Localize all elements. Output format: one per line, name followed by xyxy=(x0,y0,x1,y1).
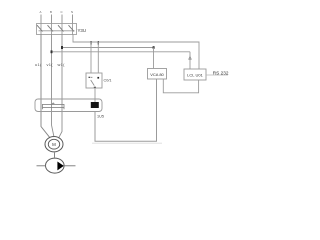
wire supply stub 1 xyxy=(40,15,42,24)
motor M xyxy=(45,137,63,152)
shadow under loop wire xyxy=(92,142,162,144)
wire bus B xyxy=(62,47,154,49)
junction dot B end xyxy=(153,46,155,49)
wire bus C xyxy=(52,51,191,53)
circuit breaker Y3U xyxy=(37,24,77,35)
wire phase 1 down xyxy=(41,35,50,138)
wire supply stub 4 xyxy=(72,15,74,24)
power module C01 xyxy=(86,73,102,88)
wire phase 2 down xyxy=(52,35,55,138)
svg-text:u1(: u1( xyxy=(35,62,42,67)
interface box LCL U01 xyxy=(184,69,206,80)
junction tick A2 xyxy=(98,41,99,44)
wire supply stub 3 xyxy=(61,15,63,24)
junction dot B start xyxy=(61,46,63,49)
controller box VCA 80 xyxy=(148,69,167,80)
junction dot C start xyxy=(51,50,53,53)
wire bus A (neutral) xyxy=(73,35,199,70)
svg-text:M: M xyxy=(52,142,56,147)
overload block frame xyxy=(35,99,102,112)
wire supply stub 2 xyxy=(51,15,53,24)
svg-text:C: C xyxy=(60,10,62,14)
RS 232 leader line xyxy=(206,74,228,76)
svg-text:N: N xyxy=(71,10,73,14)
wire phase 3 down xyxy=(59,35,63,139)
svg-text:Y3U: Y3U xyxy=(78,28,87,33)
arrow on wire to U2 xyxy=(189,56,192,59)
svg-text:B: B xyxy=(50,10,52,14)
pump xyxy=(37,158,76,173)
U-link wire between box bottoms xyxy=(163,79,198,93)
element E05 black square xyxy=(91,102,99,108)
heater element symbol xyxy=(43,103,65,109)
svg-text:1U5: 1U5 xyxy=(97,115,104,119)
wire drop to box U2 xyxy=(189,52,191,69)
wire drop to C01 pin 2 xyxy=(97,42,99,73)
svg-text:w1(: w1( xyxy=(58,62,66,67)
wire motor to pump xyxy=(53,153,55,158)
svg-text:VCA 80: VCA 80 xyxy=(150,72,164,77)
junction tick A1 xyxy=(90,41,91,44)
svg-text:A: A xyxy=(40,10,42,14)
wire drop to C01 pin 1 xyxy=(90,42,92,73)
svg-text:RS 232: RS 232 xyxy=(213,70,229,75)
wire C01 bottom to overload block xyxy=(94,88,96,102)
svg-text:LCL U01: LCL U01 xyxy=(187,72,203,77)
svg-text:v1(: v1( xyxy=(47,62,54,67)
svg-text:C0/1: C0/1 xyxy=(104,79,112,83)
wire drop to box U1 xyxy=(153,48,155,69)
loop wire E05 to box U1 xyxy=(95,79,157,141)
